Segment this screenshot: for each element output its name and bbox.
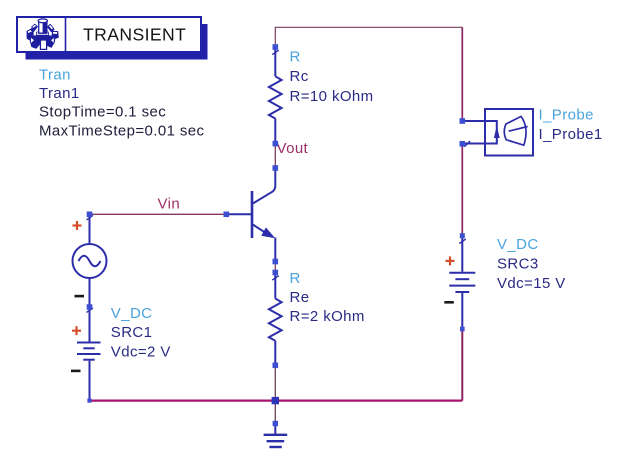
- junction squares (node markers): [87, 44, 465, 426]
- plus sign SRC1: [72, 326, 81, 335]
- svg-text:Re: Re: [290, 289, 310, 306]
- node rail left end: [87, 399, 91, 403]
- emitter lead: [253, 225, 264, 232]
- base bar: [251, 191, 254, 238]
- svg-text:TRANSIENT: TRANSIENT: [83, 25, 186, 45]
- probe fan divider: [509, 127, 528, 132]
- gear SE chunk: [45, 36, 55, 48]
- minus sign SRC3: [444, 301, 454, 304]
- wire: Re bottom to ground rail: [274, 365, 276, 400]
- node ground rail junction: [272, 397, 279, 404]
- resistor Re symbol: [269, 274, 282, 365]
- wire: right rail lower (SRC3 to bottom rail): [461, 329, 463, 401]
- TRANSIENT gear icon: [27, 19, 58, 50]
- plus sign SRC3: [446, 256, 455, 265]
- node Re top: [273, 270, 279, 276]
- node probe top: [460, 118, 466, 124]
- wire: emitter to Re segment: [274, 262, 276, 273]
- probe fan (meter): [504, 116, 526, 145]
- gear NW tooth: [31, 24, 38, 31]
- transistor Q1 (npn BJT): [226, 168, 275, 262]
- wire: Vin horizontal: [90, 213, 227, 215]
- gear bottom peg: [40, 40, 46, 49]
- pin tick SRC1 top: [87, 308, 94, 312]
- node collector: [273, 165, 279, 171]
- gear bottom band: [36, 35, 49, 41]
- battery SRC1 (V_DC) symbol: [77, 307, 101, 401]
- probe internal wire top stub: [462, 121, 497, 144]
- svg-text:I_Probe1: I_Probe1: [539, 126, 603, 143]
- svg-text:R=10 kOhm: R=10 kOhm: [290, 88, 374, 105]
- base lead: [226, 213, 251, 215]
- ground symbol: [264, 424, 288, 448]
- TRANSIENT icon cell divider: [65, 17, 67, 52]
- svg-text:Tran1: Tran1: [39, 85, 80, 102]
- AC source SRC symbol (circle with sine): [73, 215, 107, 306]
- probe internal arrow: [494, 126, 500, 138]
- svg-text:Vdc=2 V: Vdc=2 V: [111, 343, 171, 360]
- svg-text:Tran: Tran: [39, 67, 71, 84]
- node ground lower: [273, 421, 278, 426]
- gear top cylinder: [39, 21, 47, 34]
- node SRC3 bottom: [460, 327, 465, 332]
- wire: right rail upper (to I_Probe): [461, 27, 463, 121]
- probe box: [485, 109, 533, 156]
- node Vin left: [87, 212, 93, 218]
- gear E tooth: [52, 31, 58, 39]
- resistor Rc symbol: [269, 48, 282, 143]
- svg-text:SRC1: SRC1: [111, 324, 153, 341]
- battery SRC3 (V_DC) symbol: [449, 238, 475, 329]
- wire: right rail between probe and SRC3: [461, 144, 463, 236]
- svg-text:R=2 kOhm: R=2 kOhm: [290, 308, 365, 325]
- node Rc top: [273, 44, 279, 50]
- node Vin right: [224, 212, 230, 218]
- TRANSIENT controller block shadow: [26, 24, 208, 60]
- pin tick AC top: [87, 215, 94, 219]
- transistor emitter arrow: [261, 227, 275, 238]
- svg-text:I_Probe: I_Probe: [539, 106, 594, 123]
- wire: Vout segment (Rc bottom to collector): [274, 144, 276, 168]
- pin tick SRC3 top: [459, 239, 466, 243]
- svg-text:V_DC: V_DC: [497, 236, 539, 253]
- plus sign AC: [73, 221, 82, 230]
- svg-text:R: R: [290, 49, 301, 66]
- svg-text:MaxTimeStep=0.01 sec: MaxTimeStep=0.01 sec: [39, 122, 205, 139]
- wire: bottom ground rail: [90, 400, 463, 402]
- node AC-SRC1 junction: [87, 304, 93, 310]
- wire: top rail from Rc to right rail: [275, 27, 462, 47]
- gear SW chunk: [30, 36, 40, 49]
- pin tick probe lower stub: [465, 141, 471, 147]
- svg-text:V_DC: V_DC: [111, 305, 153, 322]
- pin tick Re top: [272, 276, 279, 280]
- svg-text:R: R: [290, 270, 301, 287]
- node Rc bottom / Vout: [273, 141, 279, 147]
- pin tick Rc top: [272, 50, 279, 54]
- gear center white base: [37, 32, 49, 35]
- collector lead: [253, 168, 275, 204]
- node probe bottom: [460, 141, 466, 147]
- TRANSIENT controller block box: [17, 17, 201, 52]
- minus sign AC: [75, 295, 85, 298]
- svg-text:Vdc=15 V: Vdc=15 V: [497, 275, 566, 292]
- gear NE tooth: [48, 24, 55, 32]
- minus sign SRC1: [71, 370, 81, 373]
- node emitter: [273, 259, 279, 265]
- svg-text:Vin: Vin: [158, 196, 181, 213]
- wire: ground stub below rail: [274, 401, 276, 424]
- I_Probe symbol: [462, 109, 533, 156]
- svg-text:SRC3: SRC3: [497, 255, 539, 272]
- node Re bottom: [273, 363, 279, 369]
- node SRC3 top: [460, 233, 465, 238]
- svg-text:Rc: Rc: [290, 68, 309, 85]
- svg-text:Vout: Vout: [277, 140, 309, 157]
- svg-text:StopTime=0.1 sec: StopTime=0.1 sec: [39, 104, 166, 121]
- gear W tooth: [27, 28, 33, 40]
